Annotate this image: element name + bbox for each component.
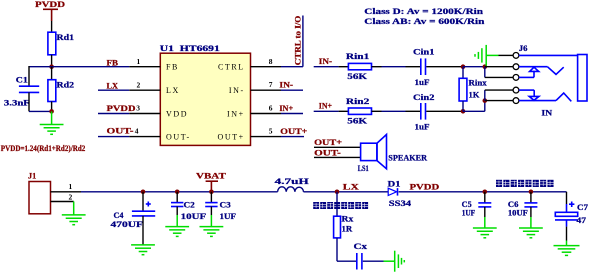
capacitor C3 1UF xyxy=(205,192,236,227)
wire Cx to ground xyxy=(363,260,384,262)
resistor Rd2 xyxy=(48,67,74,112)
svg-text:Rin1: Rin1 xyxy=(346,52,369,61)
svg-text:IN+: IN+ xyxy=(279,104,293,113)
pin 8 CTRL xyxy=(251,57,282,67)
junction jack row1 xyxy=(483,64,488,69)
junction C5 xyxy=(483,190,488,195)
connector J1 xyxy=(28,172,51,214)
svg-text:56K: 56K xyxy=(347,117,368,126)
svg-text:OUT-: OUT- xyxy=(314,148,341,157)
junction C6 xyxy=(529,190,534,195)
net label OUT- speaker xyxy=(314,148,361,157)
svg-text:LX: LX xyxy=(166,86,180,95)
ground at Cx rotated xyxy=(384,251,405,272)
svg-text:1uF: 1uF xyxy=(415,78,430,87)
svg-text:SS34: SS34 xyxy=(389,199,411,208)
junction LX xyxy=(335,190,340,195)
inductor L 4.7uH xyxy=(275,177,310,192)
svg-text:Rx: Rx xyxy=(342,215,354,224)
svg-text:CTRL: CTRL xyxy=(218,63,245,72)
ground at C2 xyxy=(165,227,189,237)
svg-text:IN+: IN+ xyxy=(227,109,245,118)
svg-text:3: 3 xyxy=(136,104,140,113)
svg-text:6: 6 xyxy=(269,103,273,112)
svg-text:IN+: IN+ xyxy=(319,101,333,110)
wire CTRL to vertical xyxy=(281,16,303,67)
pin 3 VDD xyxy=(98,104,160,114)
svg-text:D1: D1 xyxy=(388,179,401,188)
svg-text:OUT+: OUT+ xyxy=(217,132,244,141)
junction C2 xyxy=(175,190,180,195)
wire Rd1 to node FB xyxy=(51,55,53,67)
pin 2 J1 xyxy=(51,193,74,202)
wire FB node to IC pin 1 xyxy=(52,66,130,68)
capacitor C1 3.3nF xyxy=(4,75,39,107)
svg-text:56K: 56K xyxy=(347,72,368,81)
junction node ground divider xyxy=(49,109,54,114)
wire diode to C7 xyxy=(399,192,567,204)
svg-text:LS1: LS1 xyxy=(358,164,369,173)
ground at jack rotated xyxy=(475,45,499,66)
annotation text chinese 2 xyxy=(496,180,554,187)
net label IN- input row xyxy=(314,57,339,67)
capacitor C7 47 electrolytic xyxy=(555,202,588,246)
svg-text:1UF: 1UF xyxy=(220,212,237,221)
pin 2 LX xyxy=(98,80,160,90)
svg-text:IN: IN xyxy=(541,108,552,117)
svg-text:Class AB: Av = 600K/Rin: Class AB: Av = 600K/Rin xyxy=(364,17,485,26)
svg-text:7: 7 xyxy=(269,80,273,89)
capacitor C5 1UF xyxy=(462,192,492,228)
junction C3 VBAT xyxy=(209,190,214,195)
svg-text:1: 1 xyxy=(137,57,141,66)
wire Rin1 to Cin1 xyxy=(382,66,406,68)
junction jack row2 xyxy=(483,98,488,103)
svg-text:IN-: IN- xyxy=(319,57,333,66)
svg-text:SPEAKER: SPEAKER xyxy=(388,153,427,162)
svg-text:47: 47 xyxy=(577,216,587,225)
ground at C4 xyxy=(131,245,155,255)
svg-text:470UF: 470UF xyxy=(111,220,144,229)
power port VBAT xyxy=(196,172,227,192)
svg-text:C4: C4 xyxy=(114,211,124,220)
capacitor C4 470UF xyxy=(111,192,156,245)
svg-text:VDD: VDD xyxy=(166,109,188,118)
pin 6 IN+ xyxy=(251,103,304,113)
resistor Rin2 56K xyxy=(339,97,382,126)
svg-text:C2: C2 xyxy=(184,200,195,209)
ground at C3 xyxy=(200,227,224,237)
wire branch to J6 pin3 xyxy=(485,67,513,78)
svg-text:1UF: 1UF xyxy=(462,208,476,217)
pin 1 FB xyxy=(107,57,161,67)
svg-text:3.3nF: 3.3nF xyxy=(4,99,30,108)
svg-text:Rd2: Rd2 xyxy=(57,81,75,90)
svg-text:Rd1: Rd1 xyxy=(57,33,75,42)
svg-text:1: 1 xyxy=(69,182,73,191)
svg-text:1uF: 1uF xyxy=(415,122,430,131)
svg-text:PVDD: PVDD xyxy=(107,104,136,113)
svg-text:J1: J1 xyxy=(28,172,36,181)
pin 4 OUT- xyxy=(98,127,160,137)
svg-text:Rin2: Rin2 xyxy=(346,97,369,106)
svg-text:1K: 1K xyxy=(469,90,481,99)
ground at C5 xyxy=(473,228,497,238)
resistor Rin1 56K xyxy=(339,52,382,81)
capacitor Cin1 1uF xyxy=(406,48,435,87)
connector J6 xyxy=(513,44,587,104)
svg-text:Cin1: Cin1 xyxy=(413,48,434,57)
svg-text:LX: LX xyxy=(107,81,119,90)
svg-text:4: 4 xyxy=(135,127,139,136)
ground at C7 xyxy=(554,246,580,256)
svg-text:OUT-: OUT- xyxy=(166,132,191,141)
svg-text:OUT+: OUT+ xyxy=(314,138,343,147)
svg-text:8: 8 xyxy=(269,57,273,66)
pin 7 IN- xyxy=(251,80,304,90)
svg-text:LX: LX xyxy=(343,182,359,191)
diode D1 SS34 xyxy=(388,179,412,208)
junction node row2 xyxy=(461,109,466,114)
svg-text:PVDD=1.24(Rd1+Rd2)/Rd2: PVDD=1.24(Rd1+Rd2)/Rd2 xyxy=(1,144,86,153)
svg-text:Class D: Av = 1200K/Rin: Class D: Av = 1200K/Rin xyxy=(364,7,483,16)
ground at C6 xyxy=(519,228,543,238)
junction node FB divider xyxy=(49,64,54,69)
wire to J6 pin5 xyxy=(485,100,513,102)
svg-text:OUT+: OUT+ xyxy=(280,127,308,136)
capacitor C6 10UF xyxy=(508,192,538,228)
wire row1 node to jack xyxy=(463,66,485,68)
pin 5 OUT+ xyxy=(251,126,308,136)
annotation text chinese 1 xyxy=(313,202,368,209)
svg-text:10UF: 10UF xyxy=(181,212,207,221)
svg-text:C7: C7 xyxy=(577,203,588,212)
pin 1 J1 xyxy=(51,182,82,192)
speaker LS1 xyxy=(358,135,427,173)
svg-text:2: 2 xyxy=(137,80,141,89)
svg-text:10UF: 10UF xyxy=(508,208,528,217)
wire Cin1 to node xyxy=(426,66,463,68)
wire Rx to Cx xyxy=(337,260,356,262)
ground below Rd2 xyxy=(40,111,64,134)
wire PVDD to Rd1 xyxy=(51,21,53,32)
wire Rin2 to Cin2 xyxy=(382,110,406,112)
svg-text:C3: C3 xyxy=(220,200,231,209)
net label OUT+ speaker xyxy=(314,138,361,147)
wire branch to J6 pin4 xyxy=(485,90,513,101)
wire C1 bottom to ground node xyxy=(29,92,52,111)
svg-text:Cin2: Cin2 xyxy=(413,93,434,102)
wire node to C1 xyxy=(29,66,52,86)
op-amp U1 HT6691 body xyxy=(160,44,251,145)
svg-text:1R: 1R xyxy=(342,225,353,234)
svg-text:PVDD: PVDD xyxy=(35,0,65,9)
wire ground to J6 pin1 xyxy=(499,54,514,56)
svg-text:4.7uH: 4.7uH xyxy=(275,177,310,186)
svg-text:VBAT: VBAT xyxy=(196,172,227,181)
svg-text:OUT-: OUT- xyxy=(107,127,134,136)
svg-text:IN-: IN- xyxy=(279,80,293,89)
capacitor Cin2 1uF xyxy=(406,93,435,132)
svg-text:Cx: Cx xyxy=(354,242,368,251)
wire row2 node to jack xyxy=(463,101,485,112)
svg-text:CTRL to I/O: CTRL to I/O xyxy=(294,16,303,66)
svg-text:C1: C1 xyxy=(16,75,28,84)
junction C4 xyxy=(141,190,146,195)
wire to J6 pin2 xyxy=(485,66,513,68)
resistor Rinx 1K xyxy=(459,67,487,112)
svg-text:FB: FB xyxy=(107,58,119,67)
wire Cin2 to node xyxy=(426,110,463,112)
resistor Rx 1R xyxy=(334,192,354,261)
svg-text:U1 HT6691: U1 HT6691 xyxy=(160,44,220,53)
resistor Rd1 xyxy=(48,32,74,55)
svg-text:Rinx: Rinx xyxy=(469,78,487,87)
capacitor C2 10UF xyxy=(171,192,206,227)
capacitor Cx xyxy=(354,242,368,270)
svg-text:5: 5 xyxy=(269,126,273,135)
junction node row1 xyxy=(461,64,466,69)
svg-text:PVDD: PVDD xyxy=(410,183,440,192)
svg-text:J6: J6 xyxy=(519,44,528,53)
svg-text:FB: FB xyxy=(166,63,179,72)
net label IN+ input row xyxy=(314,101,339,111)
svg-text:IN-: IN- xyxy=(229,86,245,95)
ground at J1 xyxy=(62,202,86,225)
wire main rail xyxy=(81,191,278,193)
wire inductor to diode xyxy=(304,191,389,193)
svg-text:2: 2 xyxy=(69,193,73,202)
power port PVDD top-left xyxy=(35,0,65,21)
